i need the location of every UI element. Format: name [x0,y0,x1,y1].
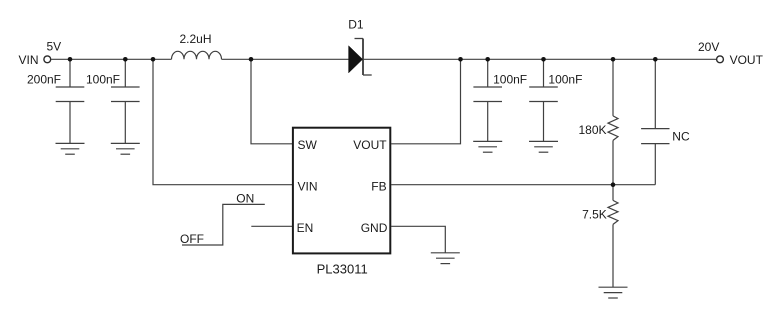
node dot (FB node) [611,182,616,187]
svg-text:GND: GND [361,221,388,235]
capacitor C2 100nF [111,59,140,143]
wire FB net [391,184,655,186]
svg-text:100nF: 100nF [86,73,120,87]
node dot (R1 tap) [611,57,616,62]
svg-text:ON: ON [236,191,254,205]
ground (C1) [56,143,85,154]
inductor L1 2.2uH [172,51,222,59]
node dot (C3 tap) [485,57,490,62]
ground (C2) [111,143,140,154]
svg-text:5V: 5V [47,39,62,53]
terminal VOUT [717,56,724,63]
ground (C4) [529,141,558,152]
wire SW riser [251,59,292,144]
svg-text:NC: NC [672,129,690,143]
svg-text:2.2uH: 2.2uH [180,32,212,46]
svg-text:VIN: VIN [298,179,318,193]
capacitor C5 NC [641,59,669,184]
capacitor C4 100nF [529,59,558,141]
svg-text:20V: 20V [698,40,719,54]
wire GND pin [391,226,445,253]
ground (IC GND) [431,253,460,264]
diode D1 (schottky) [349,39,372,76]
node dot (NC tap) [653,57,658,62]
terminal VIN [44,56,51,63]
IC U1 PL33011 box [293,128,390,254]
wire EN stub [251,225,292,227]
wire top rail right [363,58,717,60]
resistor R1 180K [608,59,618,184]
ON/OFF enable waveform [182,204,265,245]
svg-text:D1: D1 [348,18,364,32]
wire VIN riser [153,59,292,184]
node dot (VIN riser) [151,57,156,62]
svg-text:FB: FB [371,179,386,193]
capacitor C3 100nF [473,59,502,141]
svg-text:7.5K: 7.5K [582,208,607,222]
svg-text:VOUT: VOUT [730,53,764,67]
wire top rail left [51,58,172,60]
svg-text:200nF: 200nF [27,73,61,87]
capacitor C1 200nF [56,59,85,143]
node dot (VOUT riser) [458,57,463,62]
node dot (C2 tap) [123,57,128,62]
wire rail between inductor and diode [222,58,349,60]
resistor R2 7.5K [608,185,618,288]
node dot (C4 tap) [541,57,546,62]
ground (R2) [599,287,628,298]
svg-text:SW: SW [298,138,318,152]
ground (C3) [473,141,502,152]
svg-text:VIN: VIN [18,53,38,67]
wire VOUT pin riser [391,59,461,144]
svg-text:PL33011: PL33011 [317,261,368,276]
node dot (C1 tap) [68,57,73,62]
svg-text:EN: EN [297,221,314,235]
svg-text:VOUT: VOUT [353,138,387,152]
node dot (SW riser) [249,57,254,62]
svg-text:180K: 180K [578,123,606,137]
svg-text:100nF: 100nF [493,73,527,87]
svg-text:OFF: OFF [180,232,204,246]
svg-text:100nF: 100nF [548,73,582,87]
